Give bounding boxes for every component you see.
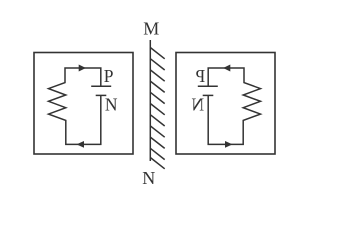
svg-text:N: N xyxy=(142,168,155,188)
svg-text:M: M xyxy=(143,19,159,39)
